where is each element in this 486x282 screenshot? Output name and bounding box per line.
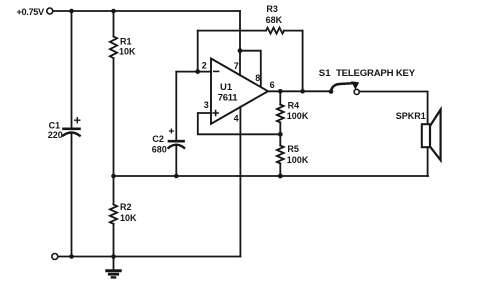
node R4 / R5 / pin3 bbox=[278, 132, 283, 137]
resistor R3 68K bbox=[266, 28, 284, 34]
wire top rail bbox=[53, 10, 240, 12]
terminal bottom bbox=[52, 254, 58, 260]
svg-text:100K: 100K bbox=[287, 111, 309, 121]
wire mid rail bbox=[114, 175, 429, 177]
label R5 100K bbox=[287, 144, 309, 165]
node bottom rail / R2 bbox=[111, 254, 116, 259]
capacitor C2 bbox=[169, 129, 185, 148]
resistor R1 10K bbox=[110, 11, 117, 176]
svg-text:100K: 100K bbox=[287, 155, 309, 165]
wire feedback riser bbox=[197, 31, 199, 72]
label S1 TELEGRAPH KEY bbox=[319, 68, 416, 79]
svg-text:R1: R1 bbox=[120, 36, 132, 46]
wire non-inverting input (pin 3) bbox=[198, 113, 280, 134]
node top-rail / C1 bbox=[69, 9, 74, 14]
node output / feedback bbox=[300, 89, 305, 94]
wire inverting input (pin 2) bbox=[176, 71, 211, 73]
op-amp U1 7611 bbox=[211, 59, 268, 124]
switch S1 pivot bbox=[329, 89, 334, 94]
label U1 7611 bbox=[218, 82, 238, 103]
wire switch to speaker bbox=[359, 92, 427, 125]
svg-text:4: 4 bbox=[234, 113, 239, 123]
wire pin 4 to ground rail bbox=[239, 107, 241, 257]
svg-text:68K: 68K bbox=[266, 15, 283, 25]
node output / R4 bbox=[278, 89, 283, 94]
wire supply to pin 7 bbox=[239, 11, 241, 75]
svg-text:TELEGRAPH KEY: TELEGRAPH KEY bbox=[336, 68, 416, 79]
resistor R5 100K bbox=[277, 134, 284, 176]
svg-text:C2: C2 bbox=[152, 134, 164, 144]
terminal +0.75V bbox=[47, 8, 53, 14]
wire C2 bottom lead bbox=[175, 146, 177, 176]
svg-text:680: 680 bbox=[152, 145, 167, 155]
wire feedback top right bbox=[284, 30, 303, 32]
node mid-rail / R1 R2 bbox=[111, 174, 116, 179]
svg-text:R5: R5 bbox=[287, 144, 299, 154]
wire bottom rail bbox=[58, 256, 240, 258]
svg-text:+0.75V: +0.75V bbox=[17, 7, 45, 17]
svg-text:R3: R3 bbox=[266, 4, 278, 14]
svg-text:S1: S1 bbox=[319, 68, 331, 79]
svg-text:7611: 7611 bbox=[218, 92, 238, 103]
svg-text:R4: R4 bbox=[288, 100, 300, 110]
wire output (pin 6) bbox=[268, 90, 331, 92]
node mid-rail / R5 bbox=[278, 174, 283, 179]
switch S1 contact bbox=[354, 89, 359, 94]
op-amp plus sign bbox=[213, 111, 218, 116]
wire C2 top lead bbox=[175, 72, 177, 140]
wire feedback top left bbox=[198, 30, 266, 32]
svg-text:10K: 10K bbox=[120, 213, 137, 223]
label R3 68K bbox=[266, 4, 283, 25]
node mid-rail / C2 bbox=[174, 174, 179, 179]
node bottom rail / C1 bbox=[69, 254, 74, 259]
wire pin 8 jumper bbox=[240, 51, 261, 87]
svg-text:3: 3 bbox=[204, 100, 209, 110]
svg-text:8: 8 bbox=[255, 73, 260, 83]
wire feedback dropper bbox=[302, 31, 304, 92]
resistor R2 10K bbox=[110, 176, 117, 257]
node top-rail / R1 bbox=[111, 9, 116, 14]
switch S1 arrowhead bbox=[351, 81, 359, 89]
label C1 220 bbox=[48, 120, 63, 139]
label R4 100K bbox=[287, 100, 309, 121]
resistor R4 100K bbox=[277, 91, 284, 134]
svg-text:10K: 10K bbox=[119, 47, 136, 57]
label C2 680 bbox=[152, 134, 167, 154]
svg-text:7: 7 bbox=[234, 61, 239, 71]
label R2 10K bbox=[120, 202, 137, 223]
capacitor C1 bbox=[63, 118, 80, 136]
svg-text:220: 220 bbox=[48, 130, 63, 140]
switch S1 lever bbox=[331, 83, 352, 90]
speaker SPKR1 bbox=[422, 110, 441, 161]
wire C1 top lead bbox=[71, 11, 73, 128]
node pin7 / pin8 tie bbox=[238, 48, 243, 53]
op-amp minus sign bbox=[214, 70, 219, 72]
node pin2 / feedback bbox=[195, 69, 200, 74]
svg-text:R2: R2 bbox=[120, 202, 132, 212]
wire speaker bottom bbox=[427, 147, 429, 176]
label R1 10K bbox=[119, 36, 136, 56]
svg-text:2: 2 bbox=[202, 61, 207, 71]
wire C1 bottom lead bbox=[71, 134, 73, 257]
svg-text:6: 6 bbox=[270, 80, 275, 90]
ground bbox=[107, 257, 120, 278]
svg-text:SPKR1: SPKR1 bbox=[396, 111, 426, 121]
